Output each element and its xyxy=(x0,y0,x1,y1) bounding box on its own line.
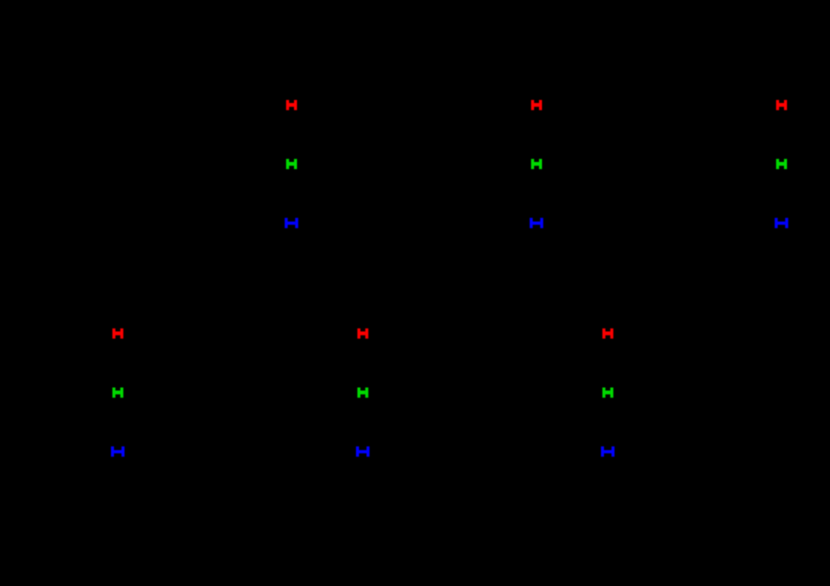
H atom green, group 2 (top row, col 2) xyxy=(531,159,542,169)
H atom blue, group 2 (top row, col 2) xyxy=(530,218,544,228)
H atom blue, group 5 (middle row, col 2) xyxy=(356,446,370,456)
H atom green, group 4 (middle row, col 1) xyxy=(112,388,123,398)
H atom green, group 5 (middle row, col 2) xyxy=(357,388,368,398)
H atom red, group 1 (top row, col 1) xyxy=(286,100,297,110)
H atom green, group 3 (top row, col 3) xyxy=(776,159,787,169)
H atom green, group 1 (top row, col 1) xyxy=(286,159,297,169)
H atom red, group 3 (top row, col 3) xyxy=(776,100,787,110)
H atom blue, group 1 (top row, col 1) xyxy=(285,218,299,228)
H atom red, group 6 (middle row, col 3) xyxy=(602,328,613,338)
H atom blue, group 6 (middle row, col 3) xyxy=(601,446,615,456)
H atom red, group 4 (middle row, col 1) xyxy=(112,328,123,338)
H atom blue, group 3 (top row, col 3) xyxy=(775,218,789,228)
H atom blue, group 4 (middle row, col 1) xyxy=(111,446,125,456)
H atom red, group 5 (middle row, col 2) xyxy=(357,328,368,338)
H atom red, group 2 (top row, col 2) xyxy=(531,100,542,110)
H atom green, group 6 (middle row, col 3) xyxy=(602,388,613,398)
